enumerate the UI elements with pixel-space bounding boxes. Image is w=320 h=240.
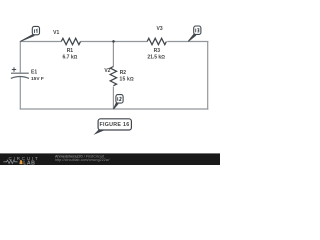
svg-text:6.7 kΩ: 6.7 kΩ (63, 55, 78, 61)
current flag I2 box (116, 95, 123, 104)
svg-text:R2: R2 (120, 70, 127, 76)
current flag I1 label (35, 29, 38, 33)
wire middle lower segment (112, 87, 114, 110)
wire bottom (20, 108, 209, 110)
current flag I1 tail (20, 34, 35, 42)
current flag I2 tail (113, 102, 119, 109)
battery E1 plus sign (12, 67, 16, 71)
watermark logo flask icon (19, 160, 22, 164)
annotation FIGURE 16 tail (94, 130, 107, 135)
watermark bar (0, 153, 220, 165)
current flag I2 label (118, 97, 122, 101)
svg-text:V1: V1 (53, 30, 59, 36)
watermark logo resistor glyph (3, 160, 17, 163)
svg-text:V2: V2 (104, 68, 110, 74)
svg-text:LAB: LAB (23, 160, 35, 165)
resistor R1 (61, 38, 80, 44)
wire top-middle segment (80, 41, 147, 43)
battery E1 top plate (11, 72, 29, 74)
svg-text:FIGURE 16: FIGURE 16 (99, 122, 129, 128)
current flag I1 box (32, 26, 39, 34)
wire middle upper segment (112, 42, 114, 67)
svg-text:V3: V3 (157, 26, 163, 32)
wire top-right segment (167, 41, 208, 43)
resistor R2 (vertical) (110, 67, 116, 86)
svg-text:21.5 kΩ: 21.5 kΩ (147, 55, 165, 61)
wire right side (207, 41, 209, 110)
svg-text:http://circuitlab.com/cmcng222: http://circuitlab.com/cmcng222w/ (55, 158, 110, 162)
wire top-left segment (20, 41, 62, 43)
svg-text:E1: E1 (31, 70, 37, 76)
resistor R3 (147, 38, 166, 44)
node junction dot (112, 40, 115, 43)
current flag I3 label (196, 29, 199, 33)
annotation FIGURE 16 box (98, 119, 131, 130)
current flag I3 box (194, 26, 201, 34)
svg-text:15 kΩ: 15 kΩ (120, 77, 135, 83)
wire left upper segment (19, 41, 21, 73)
svg-text:15V F: 15V F (31, 76, 44, 82)
wire left lower segment (19, 77, 21, 110)
battery E1 curved bottom plate (11, 77, 29, 79)
svg-text:R1: R1 (67, 48, 74, 54)
svg-text:R3: R3 (154, 48, 161, 54)
current flag I3 tail (188, 33, 197, 41)
